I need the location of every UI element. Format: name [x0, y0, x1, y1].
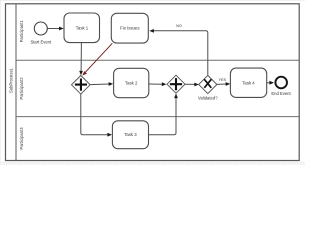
svg-text:Task 3: Task 3 — [124, 132, 137, 137]
svg-text:Task 1: Task 1 — [76, 25, 89, 30]
end event — [275, 77, 287, 89]
wire Start Event to Task 1 — [47, 28, 59, 30]
svg-text:Participant2: Participant2 — [19, 77, 24, 100]
svg-text:Task 4: Task 4 — [242, 80, 255, 85]
wire Task 2 to gateway G2 — [149, 83, 163, 85]
task Task 3 — [112, 121, 148, 149]
svg-text:Start Event: Start Event — [30, 39, 52, 44]
wire Fix Issues to gateway (red) — [85, 43, 112, 72]
task Task 2 — [114, 68, 149, 97]
wire Task 3 right and up to gateway G2 — [149, 98, 177, 135]
svg-text:SubProcess1: SubProcess1 — [8, 67, 13, 93]
pool SubProcess1 outer border — [6, 4, 300, 161]
canvas edge strips (outside drawing page) — [0, 0, 305, 1]
page background — [0, 0, 305, 165]
wire gateway G2 to gateway G3 — [185, 83, 195, 85]
wire gateway G1 to Task 2 — [90, 83, 109, 86]
task Task 1 — [64, 13, 100, 43]
task Task 4 — [230, 68, 266, 97]
task Fix Issues — [111, 13, 148, 43]
wire Task 4 to End Event — [267, 82, 270, 84]
gateway G1 parallel — [72, 76, 91, 95]
start event — [34, 22, 47, 35]
wire gateway G3 YES to Task 4 — [217, 83, 226, 85]
lane divider 1 — [16, 59, 299, 61]
wire gateway G1 down and right to Task 3 — [81, 94, 108, 135]
svg-text:Participant1: Participant1 — [19, 20, 24, 43]
lane divider 2 — [16, 116, 299, 118]
svg-text:Task 2: Task 2 — [125, 81, 138, 86]
gateway G3 exclusive Validated? — [199, 75, 217, 93]
svg-text:Participant3: Participant3 — [19, 127, 24, 150]
gateway G2 parallel — [167, 75, 185, 93]
wire Task 1 down to gateway — [80, 43, 82, 72]
svg-text:YES: YES — [218, 78, 226, 82]
pool title separator — [15, 4, 17, 161]
svg-text:Validated?: Validated? — [198, 95, 218, 100]
svg-text:Fix Issues: Fix Issues — [120, 26, 139, 31]
wire gateway G3 NO path up and left to Fix Issues — [153, 31, 208, 76]
svg-text:NO: NO — [176, 24, 182, 28]
svg-text:End Event: End Event — [271, 91, 291, 96]
